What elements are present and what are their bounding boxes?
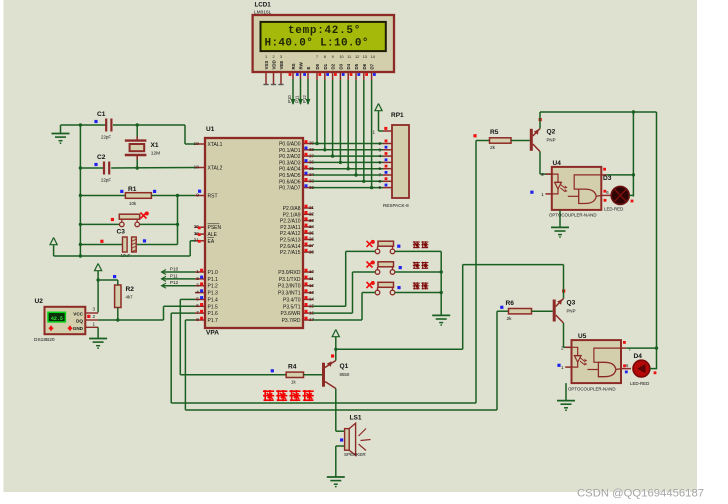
svg-text:11: 11	[347, 55, 351, 59]
svg-text:22pF: 22pF	[101, 135, 111, 140]
svg-text:OPTOCOUPLER-NAND: OPTOCOUPLER-NAND	[568, 387, 616, 392]
svg-text:5: 5	[196, 296, 199, 301]
svg-text:RP1: RP1	[391, 112, 404, 119]
svg-text:R2: R2	[126, 286, 135, 293]
svg-text:VPA: VPA	[206, 330, 219, 337]
svg-text:VEE: VEE	[279, 61, 284, 70]
svg-text:LS1: LS1	[350, 415, 362, 422]
svg-text:P3.5/T1: P3.5/T1	[283, 304, 301, 310]
svg-text:22: 22	[309, 212, 315, 217]
svg-text:8: 8	[324, 55, 326, 59]
svg-text:P12: P12	[170, 280, 179, 285]
svg-text:P2.6/A14: P2.6/A14	[280, 244, 301, 250]
svg-text:P0.5/AD5: P0.5/AD5	[279, 173, 301, 179]
svg-text:P3.4/T0: P3.4/T0	[283, 297, 301, 303]
svg-text:2: 2	[378, 141, 381, 146]
svg-text:18: 18	[194, 164, 200, 169]
svg-text:D2: D2	[331, 63, 336, 69]
svg-text:1: 1	[196, 269, 199, 274]
svg-text:8: 8	[196, 317, 199, 322]
svg-text:P3.7/RD: P3.7/RD	[282, 318, 301, 324]
svg-text:E: E	[306, 67, 311, 70]
svg-text:P3.1/TXD: P3.1/TXD	[279, 277, 301, 283]
svg-text:2: 2	[273, 55, 275, 59]
svg-text:VSS: VSS	[264, 61, 269, 70]
svg-text:3: 3	[93, 307, 96, 312]
svg-text:13: 13	[309, 290, 315, 295]
svg-text:2: 2	[196, 276, 199, 281]
svg-text:22pF: 22pF	[101, 178, 111, 183]
svg-text:P3.6/WR: P3.6/WR	[280, 311, 300, 317]
svg-text:4k7: 4k7	[126, 295, 134, 300]
svg-text:10: 10	[339, 55, 343, 59]
svg-text:P1.2: P1.2	[208, 284, 219, 290]
svg-text:R1: R1	[128, 186, 137, 193]
svg-text:R5: R5	[490, 129, 499, 136]
svg-text:P1.1: P1.1	[208, 277, 219, 283]
svg-text:temp:42.5°: temp:42.5°	[288, 25, 361, 37]
svg-text:P1.4: P1.4	[208, 297, 219, 303]
svg-text:U1: U1	[206, 126, 215, 133]
svg-text:4: 4	[196, 290, 199, 295]
svg-text:2: 2	[561, 345, 564, 350]
svg-text:9: 9	[196, 192, 199, 197]
svg-text:2k: 2k	[490, 145, 496, 151]
svg-text:U2: U2	[35, 298, 44, 305]
svg-text:P0.1/AD1: P0.1/AD1	[279, 148, 301, 154]
svg-text:P10: P10	[170, 267, 179, 272]
svg-text:RESPACK-8: RESPACK-8	[383, 203, 409, 208]
svg-text:U5: U5	[578, 333, 587, 340]
svg-text:P2.7/A15: P2.7/A15	[280, 250, 301, 256]
svg-text:D1: D1	[323, 63, 328, 69]
svg-text:1k: 1k	[291, 380, 296, 385]
svg-text:8550: 8550	[340, 372, 350, 377]
svg-text:P1.0: P1.0	[208, 270, 219, 276]
svg-text:P11: P11	[294, 95, 299, 103]
svg-text:D3: D3	[603, 175, 612, 182]
svg-text:R4: R4	[288, 364, 297, 371]
svg-text:LCD1: LCD1	[255, 2, 272, 9]
svg-text:11: 11	[309, 276, 314, 281]
svg-text:RST: RST	[208, 194, 218, 200]
svg-text:13: 13	[363, 55, 367, 59]
svg-text:XTAL1: XTAL1	[208, 142, 223, 148]
svg-text:6: 6	[196, 303, 199, 308]
svg-text:P1.3: P1.3	[208, 291, 219, 297]
svg-text:19: 19	[194, 141, 200, 146]
svg-text:P1.7: P1.7	[208, 318, 219, 324]
svg-text:25: 25	[309, 230, 315, 235]
svg-text:D4: D4	[346, 63, 351, 69]
svg-text:P0.7/AD7: P0.7/AD7	[279, 186, 301, 192]
svg-text:VCC: VCC	[73, 311, 83, 316]
svg-text:P3.2/INT0: P3.2/INT0	[278, 284, 301, 290]
svg-text:10: 10	[309, 269, 315, 274]
svg-text:P2.1/A9: P2.1/A9	[283, 212, 301, 218]
svg-text:21: 21	[309, 205, 315, 210]
svg-text:2k: 2k	[507, 316, 513, 322]
svg-text:Q1: Q1	[340, 363, 349, 370]
svg-text:P2.4/A12: P2.4/A12	[280, 231, 301, 237]
svg-text:28: 28	[309, 249, 315, 254]
svg-text:DQ: DQ	[76, 319, 83, 324]
svg-text:1: 1	[372, 130, 375, 135]
svg-text:9: 9	[378, 185, 381, 190]
svg-text:3: 3	[280, 55, 282, 59]
svg-text:7: 7	[378, 173, 381, 178]
svg-text:PNP: PNP	[547, 138, 556, 143]
svg-text:26: 26	[309, 237, 315, 242]
svg-text:8: 8	[378, 179, 381, 184]
svg-text:LED-RED: LED-RED	[630, 381, 649, 386]
svg-text:Q3: Q3	[567, 300, 576, 307]
svg-text:R6: R6	[506, 300, 515, 307]
svg-text:5: 5	[378, 160, 381, 165]
svg-text:P10: P10	[287, 95, 292, 103]
svg-text:C2: C2	[97, 154, 106, 161]
svg-text:23: 23	[309, 218, 315, 223]
svg-text:42.5: 42.5	[51, 316, 63, 322]
svg-text:9: 9	[332, 55, 334, 59]
svg-text:D4: D4	[634, 353, 643, 360]
svg-text:U4: U4	[553, 160, 562, 167]
svg-text:P1.6: P1.6	[208, 311, 219, 317]
svg-text:12: 12	[309, 283, 315, 288]
svg-text:P0.6/AD6: P0.6/AD6	[279, 179, 301, 185]
svg-text:LED-RED: LED-RED	[604, 207, 623, 212]
svg-text:P2.2/A10: P2.2/A10	[280, 219, 301, 225]
svg-text:H:40.0° L:10.0°: H:40.0° L:10.0°	[265, 37, 369, 49]
svg-text:P0.2/AD2: P0.2/AD2	[279, 154, 301, 160]
svg-text:C3: C3	[117, 229, 126, 236]
svg-text:1: 1	[93, 321, 96, 326]
svg-text:D0: D0	[315, 63, 320, 69]
svg-text:27: 27	[309, 243, 315, 248]
svg-text:VDD: VDD	[272, 60, 277, 69]
svg-text:1: 1	[561, 365, 564, 370]
svg-text:P11: P11	[170, 273, 178, 278]
svg-text:D7: D7	[370, 63, 375, 69]
svg-text:C1: C1	[97, 111, 106, 118]
svg-text:P2.0/A8: P2.0/A8	[283, 206, 301, 212]
svg-text:P0.3/AD3: P0.3/AD3	[279, 160, 301, 166]
svg-text:PSEN: PSEN	[208, 225, 222, 231]
svg-text:P12: P12	[302, 95, 307, 103]
svg-text:D6: D6	[362, 63, 367, 69]
svg-text:14: 14	[371, 55, 375, 59]
svg-text:P3.3/INT1: P3.3/INT1	[278, 291, 301, 297]
svg-text:4: 4	[378, 154, 381, 159]
svg-text:P2.3/A11: P2.3/A11	[280, 225, 300, 231]
svg-text:D3: D3	[338, 63, 343, 69]
svg-text:P2.5/A13: P2.5/A13	[280, 238, 301, 244]
svg-text:7: 7	[196, 310, 199, 315]
svg-text:7: 7	[316, 55, 318, 59]
svg-text:12M: 12M	[151, 151, 160, 157]
svg-text:OPTOCOUPLER-NAND: OPTOCOUPLER-NAND	[549, 213, 597, 218]
svg-text:1: 1	[265, 55, 267, 59]
svg-text:X1: X1	[151, 142, 159, 149]
svg-text:3: 3	[196, 283, 199, 288]
svg-text:SPEAKER: SPEAKER	[344, 452, 366, 457]
svg-text:1: 1	[541, 192, 544, 197]
svg-text:3: 3	[378, 147, 381, 152]
svg-text:D5: D5	[354, 63, 359, 69]
svg-text:DS18B20: DS18B20	[34, 337, 55, 343]
svg-text:P0.4/AD4: P0.4/AD4	[279, 167, 301, 173]
svg-text:GND: GND	[73, 326, 84, 331]
svg-text:CSDN @QQ1694456187: CSDN @QQ1694456187	[577, 488, 704, 500]
svg-text:12: 12	[355, 55, 359, 59]
svg-text:P1.5: P1.5	[208, 304, 219, 310]
svg-text:RS: RS	[291, 63, 296, 69]
svg-text:2: 2	[541, 172, 544, 177]
svg-text:Q2: Q2	[547, 129, 556, 136]
svg-text:6: 6	[378, 166, 381, 171]
svg-text:10k: 10k	[129, 201, 137, 206]
svg-text:EA: EA	[208, 239, 215, 245]
svg-text:XTAL2: XTAL2	[208, 166, 223, 172]
svg-text:RW: RW	[299, 61, 304, 69]
svg-text:2: 2	[93, 314, 96, 319]
svg-text:P0.0/AD0: P0.0/AD0	[279, 142, 301, 148]
svg-text:P3.0/RXD: P3.0/RXD	[278, 270, 301, 276]
svg-text:14: 14	[309, 297, 315, 302]
svg-text:24: 24	[309, 224, 315, 229]
svg-text:PNP: PNP	[567, 309, 576, 314]
